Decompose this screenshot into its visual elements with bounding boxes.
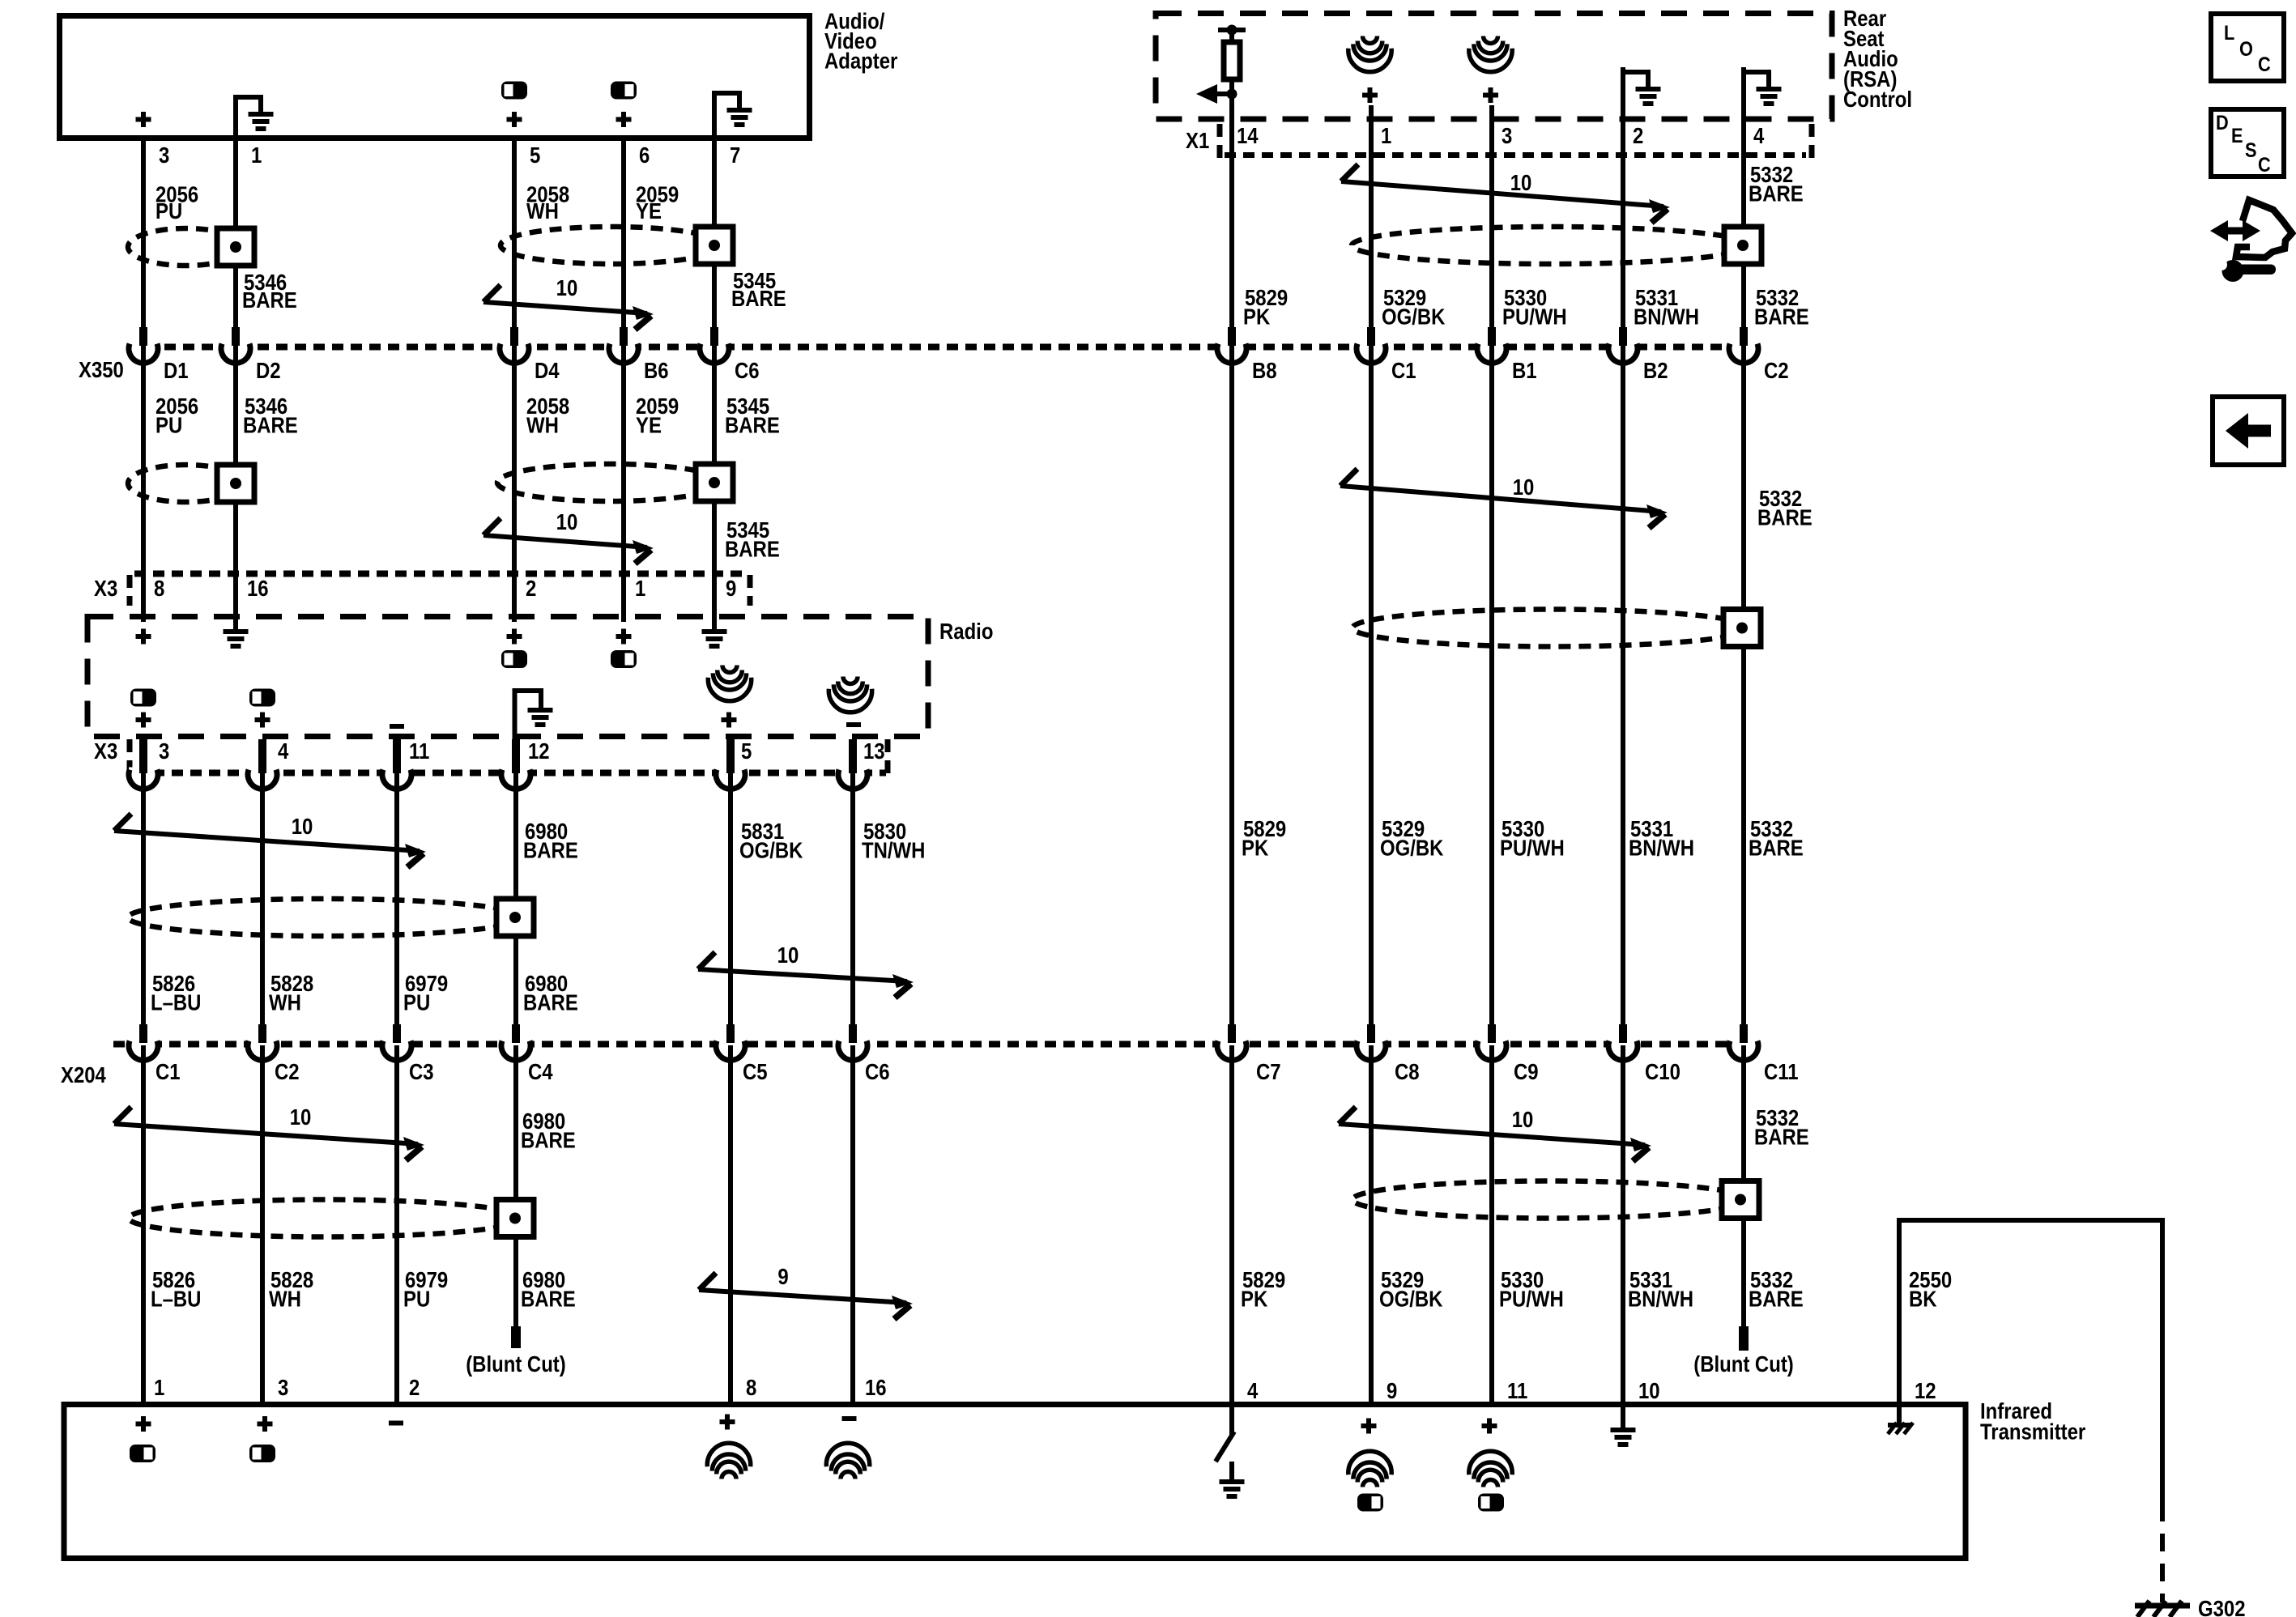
IR icon pin 3 <box>249 1445 275 1462</box>
svg-text:10: 10 <box>292 815 313 840</box>
svg-text:2: 2 <box>409 1377 420 1401</box>
X350 pin B2 socket <box>1608 342 1638 353</box>
svg-text:BARE: BARE <box>725 538 780 562</box>
icon data transfer with wrench <box>2221 228 2249 235</box>
svg-text:1: 1 <box>635 577 645 602</box>
svg-text:BARE: BARE <box>521 1287 576 1312</box>
AV ground symbol pin 7 <box>712 91 717 138</box>
RSA ground pin 4 <box>1741 70 1746 121</box>
svg-text:X3: X3 <box>94 577 117 602</box>
X350 pin B1 socket <box>1477 342 1506 353</box>
svg-text:8: 8 <box>154 577 164 602</box>
IR speaker pin 8 <box>722 1472 736 1479</box>
wire 5828 WH mid <box>260 773 265 1042</box>
svg-text:C2: C2 <box>1764 360 1789 384</box>
X350 pin C2 stub <box>1740 327 1748 346</box>
svg-text:C9: C9 <box>1514 1061 1539 1085</box>
svg-text:5: 5 <box>530 144 540 168</box>
AV ground symbol pin 1 <box>233 95 238 138</box>
svg-text:8: 8 <box>746 1377 756 1401</box>
svg-text:WH: WH <box>526 200 559 224</box>
X350 pin D4 socket <box>500 342 529 353</box>
radio plus pin 3 <box>136 717 151 722</box>
svg-text:O: O <box>2239 38 2253 61</box>
radio icon pin 3 <box>130 689 156 707</box>
IR icon pin 1 <box>130 1445 155 1462</box>
wire 5330 PU/WH lower <box>1489 1045 1494 1402</box>
IR icon pin 11 <box>1478 1494 1504 1512</box>
AV adapter box outline <box>60 16 810 138</box>
X350 pin D1 stub <box>139 327 147 346</box>
RSA junction dot top <box>1227 25 1237 36</box>
svg-text:BARE: BARE <box>725 414 780 438</box>
svg-text:D4: D4 <box>535 360 560 384</box>
svg-text:3: 3 <box>159 144 169 168</box>
X3 row2 socket at x1053 <box>838 768 867 779</box>
blunt cut stub right <box>1739 1326 1749 1351</box>
wire 5346 BARE to radio ground <box>233 345 238 629</box>
IR switch pin 4 <box>1229 1404 1234 1435</box>
svg-text:C7: C7 <box>1256 1061 1281 1085</box>
wire 2058 WH upper <box>512 138 517 345</box>
svg-text:BN/WH: BN/WH <box>1629 836 1694 861</box>
shield row2 right <box>1352 610 1750 647</box>
X204 pin C11 stub <box>1740 1024 1748 1043</box>
X350 pin C1 stub <box>1367 327 1375 346</box>
wire 5829 PK mid <box>1229 345 1234 1042</box>
svg-text:1: 1 <box>154 1377 164 1401</box>
wire 6979 PU lower <box>394 1045 399 1402</box>
svg-text:G302: G302 <box>2198 1598 2246 1617</box>
svg-text:11: 11 <box>409 740 429 764</box>
IR plus pin 8 <box>720 1419 735 1424</box>
IR plus pin 1 <box>136 1422 151 1427</box>
svg-text:C5: C5 <box>743 1061 768 1085</box>
svg-text:L–BU: L–BU <box>151 1287 201 1312</box>
connector X204 line <box>113 1041 1759 1048</box>
X204 pin C1 stub <box>139 1024 147 1043</box>
twisted pair C2 <box>114 1107 131 1124</box>
icon back arrow box <box>2213 397 2284 465</box>
X350 pin C6 socket <box>700 342 729 353</box>
svg-text:BK: BK <box>1909 1287 1937 1312</box>
X350 pin D1 socket <box>129 342 158 353</box>
svg-text:4: 4 <box>1753 125 1765 149</box>
X350 pin C2 socket <box>1729 342 1758 353</box>
AV video icon pin 6 <box>611 82 637 100</box>
svg-text:BARE: BARE <box>1749 836 1804 861</box>
shield row2 left <box>128 465 244 502</box>
svg-text:C11: C11 <box>1764 1061 1799 1085</box>
wire 2056 PU to radio <box>141 345 146 622</box>
twisted pair B <box>483 518 501 535</box>
svg-text:WH: WH <box>269 1287 301 1312</box>
svg-text:3: 3 <box>159 740 169 764</box>
svg-text:10: 10 <box>1638 1380 1660 1404</box>
connector X3 row1 right bracket <box>748 575 753 606</box>
svg-text:11: 11 <box>1507 1380 1527 1404</box>
RSA wiper arrow <box>1227 89 1237 100</box>
X350 pin D4 stub <box>510 327 518 346</box>
icon LOC box <box>2211 14 2284 81</box>
X3 row2 pin at x902 <box>726 739 735 773</box>
svg-text:10: 10 <box>1512 1108 1534 1133</box>
radio plus pin 4 <box>255 717 270 722</box>
X350 pin C6 stub <box>710 327 718 346</box>
svg-text:3: 3 <box>1502 125 1512 149</box>
svg-text:D: D <box>2216 112 2229 134</box>
wire 5830 TN/WH mid <box>850 773 855 1042</box>
X350 pin B1 stub <box>1488 327 1496 346</box>
connector X3 row2 left bracket <box>127 739 133 775</box>
svg-text:2: 2 <box>1633 125 1643 149</box>
radio ground pin 16 <box>224 629 249 634</box>
svg-text:WH: WH <box>269 991 301 1015</box>
wire 5830 TN/WH lower <box>850 1045 855 1402</box>
svg-text:C1: C1 <box>155 1061 181 1085</box>
X350 pin B8 stub <box>1228 327 1236 346</box>
radio minus pin 11 <box>390 724 404 729</box>
svg-text:4: 4 <box>278 740 289 764</box>
svg-text:C1: C1 <box>1391 360 1416 384</box>
X350 pin B8 socket <box>1217 342 1246 353</box>
wire 5831 OG/BK lower <box>728 1045 733 1402</box>
AV video icon pin 5 <box>501 82 527 100</box>
radio speaker pin 5 <box>722 666 737 673</box>
X204 pin C10 stub <box>1619 1024 1627 1043</box>
wire 5345 BARE to radio ground <box>712 345 717 629</box>
svg-text:BARE: BARE <box>523 991 578 1015</box>
radio ground pin 12 <box>513 688 518 739</box>
svg-text:B6: B6 <box>644 360 669 384</box>
wire 5829 PK upper <box>1229 79 1234 345</box>
svg-text:BN/WH: BN/WH <box>1634 305 1699 330</box>
svg-text:BARE: BARE <box>243 414 298 438</box>
wire 2059 YE upper <box>621 138 626 345</box>
blunt cut stub left <box>511 1326 521 1348</box>
IR plus pin 3 <box>258 1422 273 1427</box>
svg-text:B8: B8 <box>1252 360 1277 384</box>
X350 pin C1 socket <box>1357 342 1386 353</box>
svg-text:B1: B1 <box>1512 360 1537 384</box>
connector X3 row2 line <box>134 770 886 777</box>
svg-text:9: 9 <box>1387 1380 1397 1404</box>
wire 5329 OG/BK lower <box>1369 1045 1374 1402</box>
X204 pin C4 stub <box>512 1024 520 1043</box>
wire 5829 PK lower <box>1229 1045 1234 1436</box>
X204 pin C7 socket <box>1217 1039 1246 1050</box>
svg-text:7: 7 <box>730 144 740 168</box>
wire 6980 BARE lower <box>513 1045 518 1328</box>
svg-text:BARE: BARE <box>1749 1287 1804 1312</box>
wire 5331 BN/WH mid <box>1621 345 1625 1042</box>
X204 pin C4 socket <box>501 1039 530 1050</box>
IR plus pin 9 <box>1361 1423 1377 1428</box>
IR icon pin 9 <box>1357 1494 1383 1512</box>
svg-text:OG/BK: OG/BK <box>1382 305 1446 330</box>
IR chassis ground pin 12 <box>1897 1404 1902 1423</box>
IR minus pin 2 <box>389 1421 403 1426</box>
svg-text:5: 5 <box>741 740 752 764</box>
svg-text:Radio: Radio <box>939 620 993 645</box>
svg-text:L: L <box>2224 22 2234 45</box>
svg-text:TN/WH: TN/WH <box>862 839 925 863</box>
connector X1 left bracket <box>1217 124 1223 160</box>
RSA speaker pin 1 <box>1363 36 1378 44</box>
twisted pair G <box>1340 469 1357 486</box>
X3 row2 socket at x177 <box>129 768 158 779</box>
AV plus terminal pin 5 <box>507 117 522 122</box>
wire 5831 OG/BK mid <box>728 773 733 1042</box>
X204 pin C6 socket <box>838 1039 867 1050</box>
shield row2 mid <box>497 464 722 501</box>
svg-text:BARE: BARE <box>1754 305 1809 330</box>
wire 5332 BARE lower <box>1741 1045 1746 1328</box>
svg-text:(Blunt Cut): (Blunt Cut) <box>466 1353 566 1377</box>
svg-text:S: S <box>2245 139 2257 162</box>
X350 pin D2 stub <box>232 327 240 346</box>
svg-text:2: 2 <box>526 577 536 602</box>
wire 5329 OG/BK upper <box>1369 105 1374 345</box>
connector X3 row1 line <box>134 571 748 577</box>
wire 2550 BK <box>1897 1218 1902 1404</box>
twisted pair D <box>698 952 715 969</box>
svg-text:PU: PU <box>155 414 182 438</box>
svg-text:10: 10 <box>1513 476 1535 500</box>
IR speaker pin 16 <box>841 1472 855 1479</box>
svg-text:PU/WH: PU/WH <box>1502 305 1567 330</box>
svg-text:BN/WH: BN/WH <box>1628 1287 1693 1312</box>
svg-text:10: 10 <box>1510 172 1532 196</box>
svg-text:BARE: BARE <box>1757 506 1813 530</box>
RSA ground pin 2 <box>1621 70 1625 121</box>
connector X3 row2 right bracket <box>885 739 891 775</box>
svg-text:Transmitter: Transmitter <box>1980 1420 2085 1445</box>
radio plus pin 5 <box>722 717 737 722</box>
svg-text:OG/BK: OG/BK <box>1379 1287 1443 1312</box>
svg-text:12: 12 <box>528 740 550 764</box>
infrared transmitter box outline <box>64 1405 1966 1559</box>
svg-text:BARE: BARE <box>1754 1126 1809 1150</box>
twisted pair C <box>114 814 131 831</box>
IR plus pin 11 <box>1482 1423 1497 1428</box>
svg-text:1: 1 <box>1381 125 1391 149</box>
svg-text:10: 10 <box>777 944 799 968</box>
svg-text:C: C <box>2258 154 2271 177</box>
wire 5332 BARE mid <box>1741 345 1746 1042</box>
wire 5345 BARE upper <box>712 138 717 345</box>
svg-text:C8: C8 <box>1395 1061 1420 1085</box>
X3 row2 socket at x637 <box>501 768 530 779</box>
radio icon pin 1 <box>611 650 637 668</box>
svg-text:C10: C10 <box>1645 1061 1680 1085</box>
X204 pin C6 stub <box>849 1024 857 1043</box>
radio plus pin 8 <box>136 634 151 639</box>
twisted pair E <box>699 1273 716 1290</box>
svg-text:X1: X1 <box>1186 130 1209 154</box>
connector X1 line <box>1225 152 1806 158</box>
RSA plus pin 1 <box>1362 93 1378 98</box>
shield row3 right <box>1352 1181 1749 1219</box>
svg-text:PU: PU <box>403 991 430 1015</box>
svg-text:14: 14 <box>1237 125 1259 149</box>
radio plus pin 2 <box>507 634 522 639</box>
wire 5826 L-BU lower <box>141 1045 146 1402</box>
shield row1 mid <box>501 227 722 264</box>
wire 2059 YE to radio <box>621 345 626 622</box>
svg-text:PK: PK <box>1243 305 1271 330</box>
IR minus pin 16 <box>842 1416 857 1421</box>
icon DESC box <box>2211 109 2284 177</box>
wire 2550 BK dashed drop <box>2160 1504 2165 1602</box>
svg-text:C6: C6 <box>735 360 760 384</box>
svg-text:10: 10 <box>556 277 578 301</box>
svg-text:1: 1 <box>251 144 262 168</box>
radio icon pin 2 <box>501 650 527 668</box>
wire 6980 BARE mid <box>513 773 518 1042</box>
X204 pin C8 stub <box>1367 1024 1375 1043</box>
wire 5331 BN/WH upper <box>1621 67 1625 345</box>
radio box outline <box>87 617 928 737</box>
wire 5331 BN/WH lower <box>1621 1045 1625 1428</box>
IR switch ground <box>1229 1462 1234 1479</box>
svg-text:D2: D2 <box>256 360 281 384</box>
radio plus pin 1 <box>616 634 632 639</box>
wire 5346 BARE upper <box>233 138 238 345</box>
RSA plus pin 3 <box>1483 93 1498 98</box>
svg-text:10: 10 <box>290 1106 312 1130</box>
X204 pin C7 stub <box>1228 1024 1236 1043</box>
svg-text:L–BU: L–BU <box>151 991 201 1015</box>
X204 pin C10 socket <box>1608 1039 1638 1050</box>
svg-text:X3: X3 <box>94 740 117 764</box>
svg-text:X204: X204 <box>61 1064 106 1088</box>
connector X1 right bracket <box>1809 124 1815 160</box>
twisted pair F <box>1341 164 1358 181</box>
X3 row2 pin at x177 <box>139 739 147 773</box>
X204 pin C9 socket <box>1477 1039 1506 1050</box>
shield row1 right <box>1352 227 1751 264</box>
ground G302 symbol <box>2135 1603 2190 1609</box>
svg-text:C: C <box>2258 53 2271 76</box>
wire 2056 PU upper <box>141 138 146 345</box>
radio minus pin 13 <box>846 722 861 727</box>
RSA control box outline <box>1156 14 1832 120</box>
twisted pair A <box>483 285 501 302</box>
wire 5330 PU/WH mid <box>1489 345 1494 1042</box>
svg-text:B2: B2 <box>1643 360 1668 384</box>
wire 2058 WH to radio <box>512 345 517 622</box>
X3 row2 pin at x324 <box>258 739 266 773</box>
IR ground pin 10 <box>1621 1404 1625 1428</box>
wire 5330 PU/WH upper <box>1489 105 1494 345</box>
shield row1 left <box>128 228 244 266</box>
radio icon pin 4 <box>249 689 275 707</box>
svg-text:13: 13 <box>863 740 885 764</box>
connector X350 line <box>127 344 1759 351</box>
svg-text:Adapter: Adapter <box>824 49 897 74</box>
X204 pin C2 stub <box>258 1024 266 1043</box>
X3 row2 pin at x637 <box>512 739 520 773</box>
X204 pin C9 stub <box>1488 1024 1496 1043</box>
svg-text:E: E <box>2231 125 2243 147</box>
X350 pin D2 socket <box>221 342 250 353</box>
svg-text:4: 4 <box>1247 1380 1259 1404</box>
svg-text:BARE: BARE <box>1749 182 1804 206</box>
svg-text:PU: PU <box>155 200 182 224</box>
svg-text:BARE: BARE <box>242 289 297 313</box>
svg-text:BARE: BARE <box>731 287 786 312</box>
radio ground pin 9 <box>702 629 727 634</box>
X204 pin C3 stub <box>393 1024 401 1043</box>
X3 row2 socket at x324 <box>248 768 277 779</box>
X204 pin C5 stub <box>726 1024 735 1043</box>
svg-text:BARE: BARE <box>521 1129 576 1153</box>
svg-text:C3: C3 <box>409 1061 434 1085</box>
X350 pin B2 stub <box>1619 327 1627 346</box>
svg-text:3: 3 <box>278 1377 288 1401</box>
IR speaker pin 11 <box>1484 1480 1498 1487</box>
RSA speaker pin 3 <box>1484 36 1498 44</box>
wire 6979 PU mid <box>394 773 399 1042</box>
svg-text:16: 16 <box>865 1377 887 1401</box>
svg-text:C6: C6 <box>865 1061 890 1085</box>
svg-text:9: 9 <box>726 577 736 602</box>
svg-text:C4: C4 <box>528 1061 553 1085</box>
svg-text:PU/WH: PU/WH <box>1499 1287 1564 1312</box>
wire 5329 OG/BK mid <box>1369 345 1374 1042</box>
svg-text:(Blunt Cut): (Blunt Cut) <box>1693 1353 1794 1377</box>
shield row3 left lower <box>129 1200 523 1237</box>
svg-text:9: 9 <box>777 1266 788 1290</box>
svg-text:BARE: BARE <box>523 839 578 863</box>
X204 pin C5 socket <box>716 1039 745 1050</box>
svg-text:C2: C2 <box>275 1061 300 1085</box>
svg-text:OG/BK: OG/BK <box>739 839 803 863</box>
svg-text:PK: PK <box>1242 836 1269 861</box>
twisted pair H <box>1339 1107 1356 1124</box>
svg-text:12: 12 <box>1915 1380 1936 1404</box>
RSA resistor <box>1224 42 1240 79</box>
X350 pin B6 stub <box>620 327 628 346</box>
AV plus terminal pin 6 <box>616 117 632 122</box>
X204 pin C1 socket <box>129 1039 158 1050</box>
wire 5828 WH lower <box>260 1045 265 1402</box>
X350 pin B6 socket <box>609 342 638 353</box>
X3 row2 socket at x902 <box>716 768 745 779</box>
X204 pin C3 socket <box>382 1039 411 1050</box>
svg-text:YE: YE <box>636 200 662 224</box>
IR speaker pin 9 <box>1363 1480 1378 1487</box>
svg-text:6: 6 <box>639 144 650 168</box>
shield row3 left <box>128 899 523 936</box>
X3 row2 socket at x490 <box>382 768 411 779</box>
svg-text:Control: Control <box>1843 88 1912 113</box>
svg-text:16: 16 <box>247 577 269 602</box>
X3 row2 pin at x490 <box>393 739 401 773</box>
connector X3 row1 left bracket <box>127 575 133 606</box>
X204 pin C8 socket <box>1357 1039 1386 1050</box>
radio speaker pin 13 <box>843 677 858 684</box>
svg-text:PK: PK <box>1241 1287 1268 1312</box>
AV plus terminal pin 3 <box>136 117 151 122</box>
svg-text:10: 10 <box>556 511 578 535</box>
wire 5826 L-BU mid <box>141 773 146 1042</box>
svg-text:PU: PU <box>403 1287 430 1312</box>
wire 5332 BARE upper <box>1741 67 1746 345</box>
svg-text:X350: X350 <box>79 359 124 383</box>
X3 row2 pin at x1053 <box>849 739 857 773</box>
